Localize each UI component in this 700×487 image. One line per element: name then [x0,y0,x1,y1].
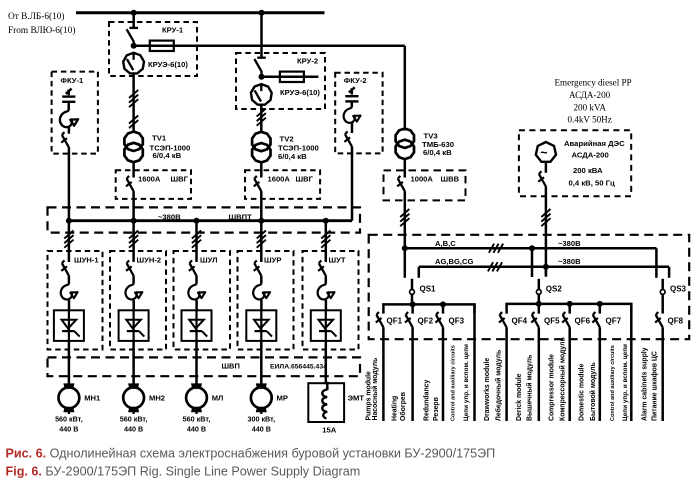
feeder ШУТ: wire from bus [325,221,328,262]
node: junction QF2 [410,301,416,307]
cable mark ШУН-2 [129,231,138,248]
cable mark on diesel feeder [541,209,550,226]
wire: QF7 stub [599,304,602,314]
wire: breaker to contactor ШУТ [325,276,328,284]
breaker ФКУ-2 [344,131,352,146]
svg-text:1600А: 1600А [138,174,161,183]
changeover switch QS2: common with circle [538,279,541,289]
svg-text:QS3: QS3 [670,284,687,293]
electromagnetic brake ЭМТ box [308,383,344,422]
wire: reactor to breaker ФКУ-1 [68,128,71,134]
breaker ШУН-2 [126,260,134,275]
svg-text:Обогрев: Обогрев [399,392,407,421]
contactor curl ШУЛ [188,284,205,301]
wire: KRU-1 drop from bus [132,13,135,28]
changeover switch QS2: left stub from A,B,C [529,245,535,251]
wire: KRU-1 breaker down to TV1 [132,74,135,132]
svg-text:ШВВ: ШВВ [441,175,460,184]
wire: QF group-2 bus [507,304,632,314]
contactor curl ШУР [253,284,270,301]
breaker QF ШВГ-2 [254,176,262,191]
wire: ШВГ-2 to DC bus [260,191,263,221]
wire: TV3 to ШВВ [404,159,407,177]
node: junction QF3 [440,301,446,307]
breaker QF ШВВ [397,176,405,191]
svg-text:560 кВт,: 560 кВт, [183,415,211,424]
thyristor converter ШУЛ [182,310,212,341]
cable mark ШУН-1 [64,231,73,248]
generator G polygon circle [536,142,556,162]
breaker QF4 [499,312,507,327]
svg-text:Аварийная ДЭС: Аварийная ДЭС [564,139,625,148]
svg-text:ШУН-2: ШУН-2 [137,255,162,264]
svg-text:Drawworks module: Drawworks module [484,358,491,421]
cubicle KRU-1 dashed box [109,22,197,76]
node: bus junction ШУН-2 [131,218,137,224]
wire: ФКУ-2 top lead with tick [349,87,355,92]
wire: ШУТ to ЭМТ brake [326,341,328,390]
cable mark ШУР [257,231,266,248]
svg-text:ФКУ-2: ФКУ-2 [344,76,367,85]
svg-text:КРУ-2: КРУ-2 [297,57,318,66]
svg-text:Цепи упр. и вспом. цепи: Цепи упр. и вспом. цепи [463,344,470,421]
wire: QF1 outgoing [382,327,385,421]
wire: QF8 outgoing [661,327,664,421]
svg-text:440 В: 440 В [252,425,271,434]
wire: diesel feeder down to reserve bus [545,186,548,276]
svg-text:Compressor module: Compressor module [549,354,556,421]
svg-text:Heating: Heating [392,396,399,421]
changeover switch QS1: right stub from AG bus corner [418,267,421,278]
breaker QF1 [376,312,384,327]
svg-text:6/0,4 кВ: 6/0,4 кВ [153,151,182,160]
svg-text:ШУН-1: ШУН-1 [74,255,99,264]
breaker ФКУ-1 [61,132,69,147]
transformer TV2 [252,132,270,163]
wire: contactor to thyristor ШУЛ [195,300,198,310]
svg-text:Control and auxiliary circuits: Control and auxiliary circuits [610,345,616,421]
wire: KRU-2 drop from bus [260,13,263,58]
svg-text:Derick module: Derick module [516,373,523,421]
svg-text:0.4kV 50Hz: 0.4kV 50Hz [568,115,612,125]
svg-text:QF1: QF1 [387,316,403,325]
svg-text:МЛ: МЛ [212,393,224,402]
node: junction top bus / KRU-2 [259,10,265,16]
fuse FU1 КРУЭ-6(10) [150,41,174,51]
svg-text:A,B,C: A,B,C [435,239,456,248]
svg-text:ШУТ: ШУТ [329,255,346,264]
svg-text:TV1: TV1 [152,134,167,143]
breaker ШУЛ [189,260,197,275]
svg-text:КРУЭ-6(10): КРУЭ-6(10) [280,88,320,97]
wire: contactor to thyristor ШУН-2 [132,300,135,310]
changeover switch QS1: common with circle [411,279,414,289]
svg-text:ФКУ-1: ФКУ-1 [61,76,85,85]
cable mark on A,B,C bus [489,244,503,253]
breaker ШУТ [318,260,326,275]
motor МЛ [186,384,207,414]
filter unit ФКУ-2 dashed box [335,73,382,154]
disconnector QS KRU-2 fixed contact [257,57,266,59]
svg-text:QF4: QF4 [512,316,528,325]
wire: QF3 outgoing [442,327,445,421]
cubicle KRU-2 dashed box [236,53,325,109]
breaker QF3 [435,312,443,327]
wire: contactor to thyristor ШУН-1 [68,300,71,310]
wire: ШВВ down to A,B,C bus [404,191,407,248]
switchboard ШВГ-2 dashed box [245,170,320,199]
cable mark ШУЛ [192,231,201,248]
svg-text:ЕИЛА.656445.434: ЕИЛА.656445.434 [270,363,327,370]
wire: ШУЛ to motor МЛ [195,341,198,384]
node: junction QF5 [536,301,542,307]
feeder ШУН-1: wire from bus [68,221,71,262]
wire: bus AG,BG,CG [419,266,669,269]
cable mark on ШВВ feeder [400,209,409,226]
filter unit ФКУ-1 dashed box [52,72,98,154]
cable mark above TV1 [129,116,138,129]
node: junction KRU-1 fuse tap [131,43,137,49]
wire: TV1 to ШВГ-1 [132,162,135,177]
wire: ШУН-2 to motor МН2 [132,341,135,384]
wire: breaker to contactor ШУР [260,276,263,284]
wire: ШУН-1 to motor МН1 [68,341,71,384]
svg-text:МН2: МН2 [149,393,165,402]
svg-text:QF7: QF7 [606,316,622,325]
svg-text:АСДА-200: АСДА-200 [572,151,609,160]
svg-text:6/0,4 кВ: 6/0,4 кВ [278,152,307,161]
motor МН1 [59,384,80,414]
diesel genset dashed box [519,130,631,196]
svg-text:15А: 15А [322,426,336,435]
motor МН2 [123,384,144,414]
thyristor converter ШУН-2 [119,310,149,341]
wire: capacitor to reactor ФКУ-2 [351,103,354,108]
wire: QF4 outgoing [505,327,508,421]
svg-text:440 В: 440 В [124,425,143,434]
svg-text:Рис. 6. Однолинейная схема эле: Рис. 6. Однолинейная схема электроснабже… [6,446,496,460]
wire: ШВПТ main bus [69,219,352,222]
wire: QF6 outgoing [568,327,571,421]
svg-text:ШУР: ШУР [264,255,281,264]
switchboard ШВВ dashed box [384,170,466,200]
wire: KRU-2 breaker down to TV2 [260,105,263,132]
svg-text:QF2: QF2 [418,316,434,325]
disconnector QS KRU-1 fixed contact [129,27,138,29]
svg-text:КРУ-1: КРУ-1 [162,26,184,35]
wire: QF5 stub [538,304,541,314]
svg-text:Fig. 6. БУ-2900/175ЭП Rig. Sin: Fig. 6. БУ-2900/175ЭП Rig. Single Line P… [6,464,361,478]
wire: control circuits outgoing (group 2) [630,304,633,421]
inductor coil ЭМТ [322,390,327,419]
changeover switch QS2: right stub (diesel) [545,267,548,277]
contactor curl ШУТ [318,284,335,301]
feeder ШУЛ: wire from bus [195,221,198,262]
svg-text:Control and auxiliary circuits: Control and auxiliary circuits [451,345,457,421]
wire: vertical feeder to TV3 [404,46,407,131]
feeder ШУР: wire from bus [260,221,263,262]
feeder ШУН-2: wire from bus [132,221,135,262]
svg-text:QF3: QF3 [449,316,465,325]
drive cabinet ШУН-2 dashed box [110,251,166,350]
wire: ШУР to motor МР [260,341,263,384]
breaker QF7 [592,312,600,327]
cable mark ШУТ [321,231,330,248]
svg-text:Лебедочный модуль: Лебедочный модуль [494,350,502,421]
svg-text:~: ~ [540,146,547,160]
cable mark on AG,BG,CG bus [488,262,502,271]
svg-text:QS2: QS2 [546,284,563,293]
distribution dashed box 0.4kV section [369,235,690,339]
transformer TV3 [396,129,414,160]
wire: QF group-1 bus [383,304,474,313]
wire: breaker to contactor ШУН-2 [132,276,135,284]
reactor curl ФКУ-2 [344,107,361,124]
svg-text:QF5: QF5 [544,316,560,325]
capacitor C ФКУ-1 [62,95,75,97]
svg-text:Резерв: Резерв [433,397,440,421]
svg-text:440 В: 440 В [59,425,78,434]
node: junction TV3 feeder on A,B,C [402,245,408,251]
wire: bus A,B,C [405,247,657,250]
svg-text:ШВГ: ШВГ [296,174,314,183]
svg-text:~380В: ~380В [558,239,581,248]
svg-text:Domestic module: Domestic module [579,363,586,421]
svg-text:Питание шкафов ЦС: Питание шкафов ЦС [652,351,659,421]
thyristor converter ШУН-1 [54,310,84,341]
drive cabinet ШУЛ dashed box [174,251,231,350]
cable mark on TV1 feeder [129,90,138,107]
node: junction top bus / KRU-1 [131,10,137,16]
contactor curl ШУН-2 [125,284,142,301]
wire: ФКУ-2 down to DC bus right end [351,147,354,221]
svg-text:From ВЛЮ-6(10): From ВЛЮ-6(10) [8,25,75,36]
breaker QF5 [531,312,539,327]
motor МР [251,384,272,414]
changeover switch QS1: left stub [404,248,407,278]
cable mark on TV2 feeder [257,109,266,126]
svg-text:ШВГ: ШВГ [171,174,189,183]
breaker QF ШВГ-1 [126,176,134,191]
breaker ШУР [254,260,262,275]
svg-text:440 В: 440 В [187,425,206,434]
wire: TV2 to ШВГ-2 [260,162,263,177]
breaker diesel [538,171,546,186]
svg-text:АСДА-200: АСДА-200 [569,90,611,100]
drive cabinet ШУР dashed box [238,251,294,350]
wire: QF5 outgoing [538,327,541,421]
svg-text:300 кВт,: 300 кВт, [247,415,275,424]
svg-text:200 kVA: 200 kVA [574,103,607,113]
wire: generator lead [545,162,548,173]
node: junction diesel feeder on AG,BG,CG [543,264,549,270]
wire: reactor to breaker ФКУ-2 [351,123,354,133]
svg-text:ШУЛ: ШУЛ [200,255,217,264]
svg-text:Компрессорный модуль: Компрессорный модуль [559,337,567,421]
wire: breaker to contactor ШУЛ [195,276,198,284]
switchboard ШВП dashed box [48,357,361,376]
svg-text:Emergency diesel PP: Emergency diesel PP [555,78,632,88]
svg-text:QS1: QS1 [420,284,437,293]
reactor curl ФКУ-1 [60,110,78,128]
svg-text:6/0,4 кВ: 6/0,4 кВ [423,148,452,157]
breaker ШУН-1 [61,260,69,275]
wire: top 6(10)kV bus [76,11,325,14]
wire: QF6 stub [568,304,571,314]
node: junction KRU-2 fuse tap [259,74,265,80]
node: bus junction ШУН-1 [66,218,72,224]
svg-text:QF8: QF8 [668,316,684,325]
node: bus junction ШУЛ [194,218,200,224]
wire: control circuits outgoing (group 1) [473,304,476,421]
svg-text:AG,BG,CG: AG,BG,CG [435,257,473,266]
svg-text:0,4 кВ, 50 Гц: 0,4 кВ, 50 Гц [569,179,616,188]
wire: QF2 stub [411,304,414,313]
svg-text:QF6: QF6 [575,316,591,325]
node: junction QF7 [597,301,603,307]
wire: breaker to contactor ШУН-1 [68,276,71,284]
svg-text:Вышечный модуль: Вышечный модуль [526,355,534,421]
node: junction QF6 [567,301,573,307]
node: bus junction ШУТ [323,218,329,224]
wire: QF3 stub [442,304,445,313]
svg-text:ШВП: ШВП [222,361,240,370]
changeover switch QS3: right stub from AG corner [668,267,671,278]
breaker Q1 (КРУЭ) polygon circle [123,53,144,74]
svg-text:Насосный модуль: Насосный модуль [371,358,379,421]
breaker QF8 [655,312,663,327]
drive cabinet ШУТ dashed box [303,251,359,350]
breaker Q2 (КРУЭ) polygon circle [251,84,272,105]
wire: ФКУ-1 down to DC bus [68,147,71,220]
wire: capacitor to reactor ФКУ-1 [67,103,70,110]
svg-text:Redundancy: Redundancy [424,379,431,421]
thyristor converter ШУР [246,310,276,341]
capacitor C ФКУ-2 [345,95,358,97]
wire: contactor to thyristor ШУТ [325,300,328,310]
wire: fuse feeder to TV3 [134,45,405,48]
svg-text:~380В: ~380В [558,257,581,266]
svg-text:TV2: TV2 [280,134,294,143]
drive cabinet ШУН-1 dashed box [48,251,103,350]
svg-text:От В.ЛБ-6(10): От В.ЛБ-6(10) [8,11,65,22]
contactor curl ШУН-1 [61,284,78,301]
wire: KRU-2 fuse stub [262,76,319,79]
svg-text:МН1: МН1 [84,393,101,402]
svg-text:TV3: TV3 [424,132,438,141]
disconnector QS KRU-2 blade [254,59,261,77]
changeover switch QS3: left stub from A,B,C corner [655,248,658,278]
wire: QF7 outgoing [599,327,602,421]
breaker QF6 [562,312,570,327]
wire: ФКУ-1 top lead with tick [66,89,72,94]
svg-text:1000А: 1000А [411,175,434,184]
wire: ШВГ-1 to DC bus [132,191,135,221]
transformer TV1 [124,132,142,163]
svg-text:Бытовой модуль: Бытовой модуль [589,362,597,421]
svg-text:200 кВА: 200 кВА [573,166,603,175]
svg-text:560 кВт,: 560 кВт, [120,415,148,424]
svg-text:МР: МР [277,393,288,402]
svg-text:1600А: 1600А [268,174,291,183]
node: bus junction ШУР [258,218,264,224]
wire: contactor to thyristor ШУР [260,300,263,310]
changeover switch QS3: common with circle [661,279,664,289]
svg-text:560 кВт,: 560 кВт, [55,415,83,424]
fuse FU2 КРУЭ-6(10) [280,72,304,82]
svg-text:Цепи упр. и вспом. цепи: Цепи упр. и вспом. цепи [622,344,629,421]
svg-text:КРУЭ-6(10): КРУЭ-6(10) [148,60,188,69]
svg-text:Alarm cabinets supply: Alarm cabinets supply [642,347,649,421]
svg-text:ЭМТ: ЭМТ [348,394,365,403]
switchboard ШВПТ dashed box [48,207,361,232]
disconnector QS KRU-1 blade [127,29,134,46]
switchboard ШВГ-1 dashed box [116,170,191,199]
thyristor converter ШУТ [311,310,341,341]
breaker QF2 [405,312,413,327]
wire: QF2 outgoing [411,327,414,421]
